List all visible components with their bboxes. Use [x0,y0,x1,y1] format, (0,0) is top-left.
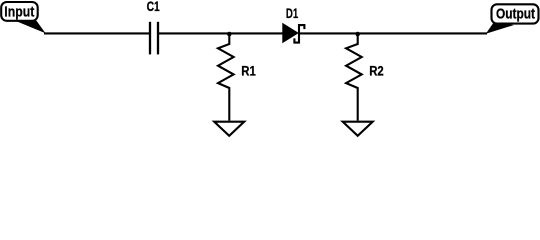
wire input to C1 [44,32,149,34]
ground (R2) [343,122,373,136]
node A junction dot [227,32,232,37]
capacitor C1 [150,22,158,55]
svg-text:R2: R2 [369,64,384,79]
Output flag tail [486,22,514,34]
svg-text:C1: C1 [147,0,161,14]
resistor R1 [218,34,234,121]
diode D1 (schottky) [283,24,304,43]
svg-text:D1: D1 [286,6,299,21]
ground (R1) [214,122,244,136]
node B junction dot [355,32,360,37]
Input flag box [1,2,38,21]
svg-text:Output: Output [496,6,535,23]
wire C1 to D1 [159,32,284,34]
Output flag box [492,4,539,23]
svg-text:R1: R1 [241,64,256,79]
svg-text:Input: Input [4,3,34,20]
Input flag tail [14,20,46,33]
wire D1 to output [300,32,487,34]
resistor R2 [346,34,362,121]
